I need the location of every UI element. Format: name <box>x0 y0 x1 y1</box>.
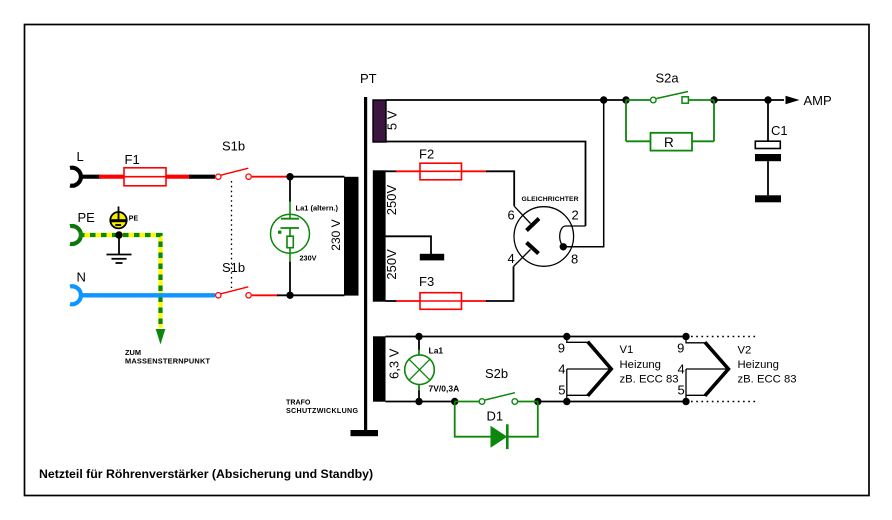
node L-prime junction <box>286 173 293 180</box>
svg-text:6: 6 <box>508 208 515 223</box>
wire node to lamp top <box>289 177 291 202</box>
wire N blue <box>79 293 215 297</box>
svg-text:7V/0,3A: 7V/0,3A <box>429 383 460 393</box>
arrow to star ground <box>156 329 166 345</box>
tube V2 heater <box>677 333 796 405</box>
label TRAFO SCHUTZWICKLUNG <box>286 399 358 416</box>
svg-text:S2b: S2b <box>485 366 508 381</box>
svg-text:GLEICHRICHTER: GLEICHRICHTER <box>522 196 579 203</box>
node S2b right <box>534 398 541 405</box>
fuse F1 <box>124 152 166 186</box>
tube V1 heater <box>558 333 679 405</box>
node PE junction <box>115 231 122 238</box>
svg-text:V1: V1 <box>620 344 634 356</box>
svg-text:S2a: S2a <box>656 71 680 86</box>
earth ground symbol <box>107 235 132 263</box>
svg-text:8: 8 <box>571 252 578 267</box>
wire PE yellow-green <box>79 235 161 328</box>
fuse F3 <box>386 274 488 309</box>
wire HV center tap to chassis <box>386 236 432 254</box>
wire 5V bottom to pin2 riser <box>386 142 586 227</box>
svg-text:TRAFO: TRAFO <box>286 399 311 407</box>
svg-text:AMP: AMP <box>804 93 832 108</box>
svg-text:V2: V2 <box>738 345 752 357</box>
node B+ C1 <box>764 96 771 103</box>
wire lamp bottom to node <box>289 262 291 296</box>
svg-text:S1b: S1b <box>222 139 245 154</box>
node B+ S2a right <box>710 96 717 103</box>
svg-text:R: R <box>664 135 674 150</box>
pin 6 lead <box>514 206 530 223</box>
switch linkage dotted <box>231 181 233 288</box>
svg-text:5: 5 <box>558 383 565 398</box>
svg-text:Netzteil für Röhrenverstärker: Netzteil für Röhrenverstärker (Absicheru… <box>39 467 373 481</box>
transformer core <box>364 97 367 430</box>
svg-text:La1 (altern.): La1 (altern.) <box>296 204 339 213</box>
svg-text:5 V: 5 V <box>385 110 400 130</box>
svg-text:9: 9 <box>558 341 565 356</box>
output arrow AMP <box>786 93 832 108</box>
wire node to primary winding <box>290 176 345 178</box>
svg-text:5: 5 <box>677 383 684 398</box>
switch S2b <box>455 366 538 404</box>
wire black thick before switch <box>189 175 215 179</box>
svg-text:6,3 V: 6,3 V <box>387 348 402 379</box>
transformer HV winding bar 2x250V <box>373 170 386 301</box>
svg-text:C1: C1 <box>771 123 788 138</box>
wire L black thick <box>79 175 101 179</box>
svg-text:S1b: S1b <box>222 260 245 275</box>
svg-text:4: 4 <box>677 362 684 377</box>
node B+ S2a left <box>622 96 629 103</box>
lamp La1 (altern.) neon indicator <box>271 201 339 263</box>
svg-text:230 V: 230 V <box>329 219 343 250</box>
node B+ at pin8 riser <box>600 96 607 103</box>
terminal N <box>70 270 86 305</box>
svg-text:9: 9 <box>677 341 684 356</box>
anode plate lower <box>527 243 539 254</box>
wire heater top dotted continuation <box>691 336 757 338</box>
capacitor C1 <box>755 100 788 195</box>
switch S1b lower <box>216 260 252 298</box>
terminal PE <box>70 210 95 244</box>
node S2b left <box>451 398 458 405</box>
svg-text:F2: F2 <box>419 147 434 162</box>
wire S1b lower red thin <box>252 294 278 296</box>
title text <box>39 467 373 481</box>
wire to primary bottom <box>277 294 345 296</box>
chassis ground of C1 <box>755 195 781 202</box>
svg-text:4: 4 <box>558 362 565 377</box>
switch S2a <box>626 71 714 104</box>
wire heater bottom <box>386 401 457 403</box>
wire pin8 to B+ line <box>563 100 603 247</box>
chassis ground of center tap <box>420 254 444 261</box>
svg-text:F1: F1 <box>125 152 140 167</box>
wire L red thick to fuse <box>99 175 125 179</box>
svg-text:zB. ECC 83: zB. ECC 83 <box>620 373 679 385</box>
svg-text:250V: 250V <box>384 184 399 215</box>
node pin8 cathode <box>560 243 567 250</box>
svg-text:2: 2 <box>572 208 579 223</box>
wire heater bottom dotted continuation <box>691 401 757 403</box>
rectifier tube GLEICHRICHTER <box>508 196 586 267</box>
wire fuse to S1b red thick <box>166 175 191 179</box>
anode plate upper <box>527 219 540 231</box>
fuse F2 <box>386 147 488 180</box>
svg-text:4: 4 <box>508 251 515 266</box>
PE connector icon <box>110 207 138 229</box>
terminal L <box>70 149 84 186</box>
svg-text:250V: 250V <box>384 249 399 280</box>
resistor R bypass <box>626 100 714 151</box>
transformer primary winding 230V bar <box>344 177 359 296</box>
svg-text:zB. ECC 83: zB. ECC 83 <box>738 374 797 386</box>
label ZUM MASSENSTERNPUNKT <box>125 348 210 366</box>
svg-text:MASSENSTERNPUNKT: MASSENSTERNPUNKT <box>125 357 210 366</box>
svg-text:L: L <box>77 149 84 164</box>
wire heater top <box>386 336 687 338</box>
pin 4 lead <box>514 250 531 267</box>
lamp La1 pilot light <box>405 333 460 405</box>
svg-text:D1: D1 <box>487 409 504 424</box>
diode D1 bypass <box>455 402 538 450</box>
filament hook pin2 <box>560 226 586 247</box>
svg-text:F3: F3 <box>419 274 434 289</box>
svg-text:PE: PE <box>78 210 96 225</box>
switch S1b upper <box>216 139 252 180</box>
svg-text:PT: PT <box>360 71 377 86</box>
svg-text:230V: 230V <box>300 254 317 263</box>
wire F3 to pin4 <box>486 267 514 302</box>
wire main B+ line <box>386 99 627 101</box>
svg-text:Heizung: Heizung <box>620 359 661 371</box>
transformer 5V winding bar <box>373 100 386 142</box>
svg-text:PE: PE <box>129 216 139 223</box>
svg-text:N: N <box>77 270 86 285</box>
chassis ground of core (Schutzwicklung) <box>351 430 379 436</box>
transformer 6.3V winding bar <box>373 336 386 401</box>
svg-text:La1: La1 <box>429 346 444 356</box>
wire S1b to node, red thin <box>252 176 290 178</box>
wire F2 to pin6 <box>486 171 514 206</box>
svg-text:Heizung: Heizung <box>738 359 779 371</box>
node N-prime junction <box>286 292 293 299</box>
svg-text:SCHUTZWICKLUNG: SCHUTZWICKLUNG <box>286 407 358 415</box>
